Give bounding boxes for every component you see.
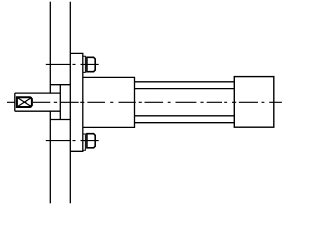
top bolt centerline [46,63,99,65]
cylinder body [83,77,135,127]
main axis centerline [7,101,282,103]
shaft top edge [15,92,61,94]
hub top edge [50,84,70,86]
mounting flange [70,53,83,151]
top bolt washer [83,56,86,72]
rod outer bottom line [135,122,235,124]
shaft bottom edge [15,110,61,112]
end block [234,77,273,128]
coupling cross diagonal 2 [17,97,32,107]
coupling cross diagonal 1 [17,97,32,107]
wall back line [69,2,71,204]
hub face line [59,85,61,120]
bottom bolt centerline [46,140,99,142]
bottom bolt washer [83,134,86,150]
wall front line lower segment [49,111,51,203]
top bolt head [87,57,95,71]
rod outer top line [135,81,235,83]
shaft left end edge [14,93,16,111]
wall front line upper segment [49,2,51,93]
hub bottom edge [50,119,70,121]
coupling block (crossed box) [17,97,32,107]
rod inner top line [135,88,235,90]
rod inner bottom line [135,115,235,117]
bottom bolt head [87,134,95,148]
